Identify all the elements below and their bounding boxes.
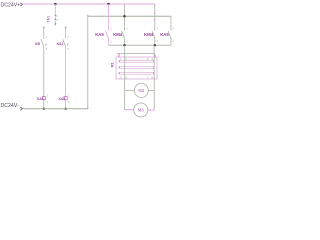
contact KM4: [113, 28, 128, 44]
svg-text:M3: M3: [138, 108, 144, 113]
node dot bus x=154.8: [154, 44, 156, 46]
wire M3 left stub: [125, 109, 134, 111]
label 7A1 on feeder: [46, 15, 58, 24]
wire contact3 lower lead: [154, 38, 156, 45]
node dot bus x=124.5: [123, 44, 125, 46]
wire contact2 lower lead: [124, 38, 126, 45]
wire dashes on contact3 drop: [154, 12, 155, 20]
wire vertical feeder x=55.5: [54, 4, 56, 24]
svg-text:KB: KB: [35, 42, 40, 46]
terminal chevron at feeder bottom: [55, 24, 56, 25]
element 3: [120, 72, 154, 74]
wire bottom -24V rail: [23, 108, 88, 110]
pin stub left into box: [118, 54, 120, 58]
terminal chevron branch A top: [43, 27, 44, 29]
contact KM4b: [144, 28, 159, 44]
corner pixel bottom: [87, 108, 88, 109]
corner pixel top: [87, 15, 88, 16]
pin mark contact KB: [45, 44, 46, 45]
wire contact4 feeder drop x=171: [170, 16, 172, 30]
svg-text:KM4: KM4: [113, 32, 123, 37]
wire branch A lower: [43, 47, 45, 109]
wire drop right into box: [153, 45, 155, 110]
svg-text:KA6: KA6: [37, 97, 44, 101]
contact KA5: [95, 28, 112, 44]
node dot branch A bottom: [43, 108, 45, 110]
wire M2 left stub: [125, 89, 135, 91]
wire gray rail y=16.2: [88, 15, 171, 17]
svg-text:DC24V+: DC24V+: [1, 2, 21, 8]
pin mark contact KA1: [67, 44, 68, 45]
label KB: [35, 36, 48, 51]
wire branch B upper lead: [65, 28, 67, 39]
terminal chevron branch B top: [65, 27, 66, 29]
contact KA1 diagonal: [63, 39, 66, 46]
svg-text:M2: M2: [138, 88, 144, 93]
wire M2 right stub: [148, 89, 154, 91]
motor M3: [134, 103, 148, 117]
svg-text:KA5: KA5: [59, 97, 66, 101]
wire contact1 feeder drop x=108.5: [108, 4, 110, 31]
svg-text:KA1: KA1: [57, 42, 64, 46]
wire jog y=54: [117, 53, 154, 55]
wire top +24V rail: [23, 3, 155, 5]
element end pin ticks: [119, 60, 155, 74]
wire contact4 lower lead: [170, 38, 172, 45]
wire contact2 feeder drop x=124.5: [124, 5, 126, 31]
coil KA5: [59, 94, 71, 104]
node dot gray rail x=124.5: [123, 15, 125, 17]
net label DC24V-: [1, 103, 23, 110]
wire branch B lower: [65, 47, 67, 109]
node dot branch B bottom: [64, 108, 66, 110]
element 2: [120, 66, 154, 68]
contact KA5b: [160, 28, 174, 44]
wire branch A upper lead: [43, 28, 45, 39]
wire contact1 lower lead: [108, 38, 110, 45]
svg-text:DC24V-: DC24V-: [1, 103, 19, 109]
svg-text:KM4: KM4: [144, 32, 154, 37]
node junction on top rail at x=55.5: [54, 3, 56, 5]
label KA1: [57, 36, 70, 51]
svg-text:KA5: KA5: [160, 32, 169, 37]
pin numbers in box: [120, 58, 153, 80]
wire contact3 feeder drop x=154.8: [154, 4, 156, 31]
wire M3 right stub: [148, 109, 154, 111]
heater box R1: [116, 57, 157, 79]
wire drop left into box: [124, 45, 126, 110]
motor M2: [134, 83, 148, 97]
contact KB diagonal: [41, 39, 44, 46]
svg-text:KA5: KA5: [95, 32, 104, 37]
svg-text:7A1: 7A1: [46, 16, 50, 23]
wire bus y=45.2: [109, 44, 172, 46]
label R1: [110, 62, 114, 69]
coil KA6: [37, 94, 49, 104]
pin stub right into box: [154, 54, 156, 57]
wire return vertical x=87.8: [87, 16, 89, 109]
element 1: [120, 60, 154, 62]
node junction on top rail at x=108.5: [107, 3, 109, 5]
net label DC24V+: [1, 2, 23, 8]
